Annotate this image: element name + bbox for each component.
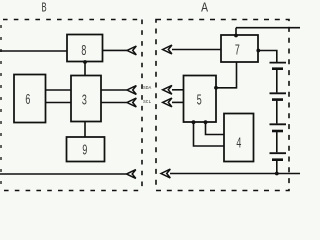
svg-text:7: 7 (235, 43, 240, 60)
svg-text:5: 5 (197, 93, 202, 110)
svg-text:4: 4 (236, 135, 241, 152)
svg-text:SCL: SCL (143, 99, 152, 105)
svg-text:A: A (201, 1, 208, 16)
svg-text:8: 8 (81, 43, 86, 60)
svg-text:SDA: SDA (143, 85, 152, 91)
svg-text:B: B (41, 2, 46, 16)
svg-text:3: 3 (82, 92, 87, 109)
svg-text:6: 6 (25, 92, 30, 109)
svg-text:9: 9 (82, 142, 87, 159)
